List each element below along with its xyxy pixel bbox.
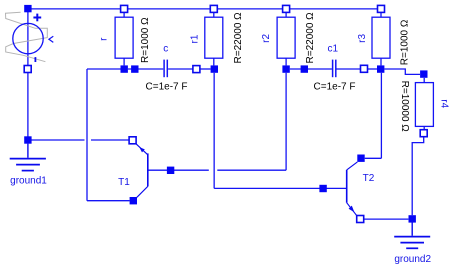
node r bottom second (131, 65, 138, 72)
svg-text:T2: T2 (363, 173, 375, 184)
node r2 bottom (282, 65, 289, 72)
svg-text:R=10000 Ω: R=10000 Ω (399, 81, 410, 133)
wire cap c1 to open pin (336, 68, 360, 70)
voltage source V1 circle (13, 23, 43, 53)
svg-text:R=1000 Ω: R=1000 Ω (399, 19, 410, 65)
node T1 base (167, 167, 174, 174)
svg-text:T1: T1 (118, 177, 130, 188)
T1 emitter arrow (139, 147, 145, 152)
pin cap c right (193, 66, 200, 73)
resistor r1 (205, 17, 223, 58)
node r1 bottom (211, 65, 218, 72)
svg-text:r3: r3 (357, 34, 368, 43)
capacitor c (164, 60, 167, 78)
resistor r3 (372, 17, 390, 58)
node T2 base (319, 185, 326, 192)
minus sign (rotated vertical) (34, 57, 36, 62)
node r2 bottom second (301, 65, 308, 72)
node r bottom (121, 65, 128, 72)
resistor r2 (277, 17, 295, 58)
T2 emitter arrow (349, 206, 355, 213)
svg-text:C=1e-7 F: C=1e-7 F (146, 81, 188, 92)
wire T1 collector horizontal (87, 200, 130, 202)
sine wave gray curve (6, 12, 48, 62)
wire T1 base left segment (148, 169, 209, 171)
svg-text:r1: r1 (189, 34, 200, 43)
wire cap c to open pin (168, 68, 193, 70)
wire top rail (28, 8, 381, 10)
ground1 (10, 144, 46, 171)
capacitor c1 (333, 60, 336, 78)
wire T2 collector horizontal (365, 157, 382, 159)
pin r2 top (283, 5, 290, 12)
wire T1 base right segment (217, 169, 286, 171)
plus sign (33, 14, 41, 22)
svg-text:r: r (99, 37, 110, 41)
pin r4 bottom (420, 130, 427, 137)
svg-text:ground2: ground2 (394, 254, 431, 265)
svg-text:c: c (163, 43, 168, 54)
svg-text:r2: r2 (261, 34, 272, 43)
svg-text:C=1e-7 F: C=1e-7 F (314, 81, 356, 92)
wire r2 bottom to cap c1 (290, 68, 332, 70)
wire T1 emitter left segment (28, 139, 85, 141)
node r4 top (420, 70, 427, 77)
wire source vertical (27, 9, 29, 140)
wire open pin to r1 bottom (200, 68, 211, 70)
node T1 collector (130, 197, 137, 204)
node source bottom junction (24, 136, 31, 143)
wire r3 bottom down to T2 collector (380, 73, 382, 159)
wire T2 base horizontal (214, 187, 347, 189)
svg-text:R=22000 Ω: R=22000 Ω (233, 12, 244, 64)
resistor r4 (415, 83, 433, 127)
pin source bottom (24, 66, 31, 73)
svg-text:ground1: ground1 (10, 175, 47, 186)
pin T1 emitter (129, 137, 136, 144)
wire r3 to r4 jog (384, 69, 420, 74)
wire r2 down (285, 73, 287, 170)
pin T2 emitter (357, 216, 364, 223)
wire T1 emitter right segment (91, 139, 129, 141)
svg-text:r4: r4 (439, 99, 450, 108)
wire node A down (86, 69, 88, 201)
ground2 (394, 223, 430, 249)
svg-text:R=22000 Ω: R=22000 Ω (305, 12, 316, 64)
resistor r (115, 17, 133, 58)
wire node A left horizontal (87, 68, 121, 70)
junction squares filled (24, 5, 427, 223)
svg-text:c1: c1 (328, 43, 339, 54)
open pin squares (24, 5, 427, 222)
pin r1 top (210, 5, 217, 12)
wire r bottom to cap c (128, 68, 163, 70)
pin r top (121, 5, 128, 12)
wire r1 down (213, 73, 215, 189)
svg-text:R=1000 Ω: R=1000 Ω (140, 17, 151, 63)
node T2 collector (357, 155, 364, 162)
wire r4 bottom jog (412, 137, 424, 215)
transistor T2 (346, 170, 348, 203)
transistor T1 (147, 153, 149, 186)
pin r3 top (378, 5, 385, 12)
node source top (24, 5, 31, 12)
wire open pin to r3 bottom (368, 68, 377, 70)
pin cap c1 right (361, 65, 368, 72)
arrow marker < (49, 36, 53, 42)
node r3 bottom (377, 65, 384, 72)
wire T2 emitter to ground2 (364, 218, 409, 220)
node ground2 junction (409, 215, 416, 222)
